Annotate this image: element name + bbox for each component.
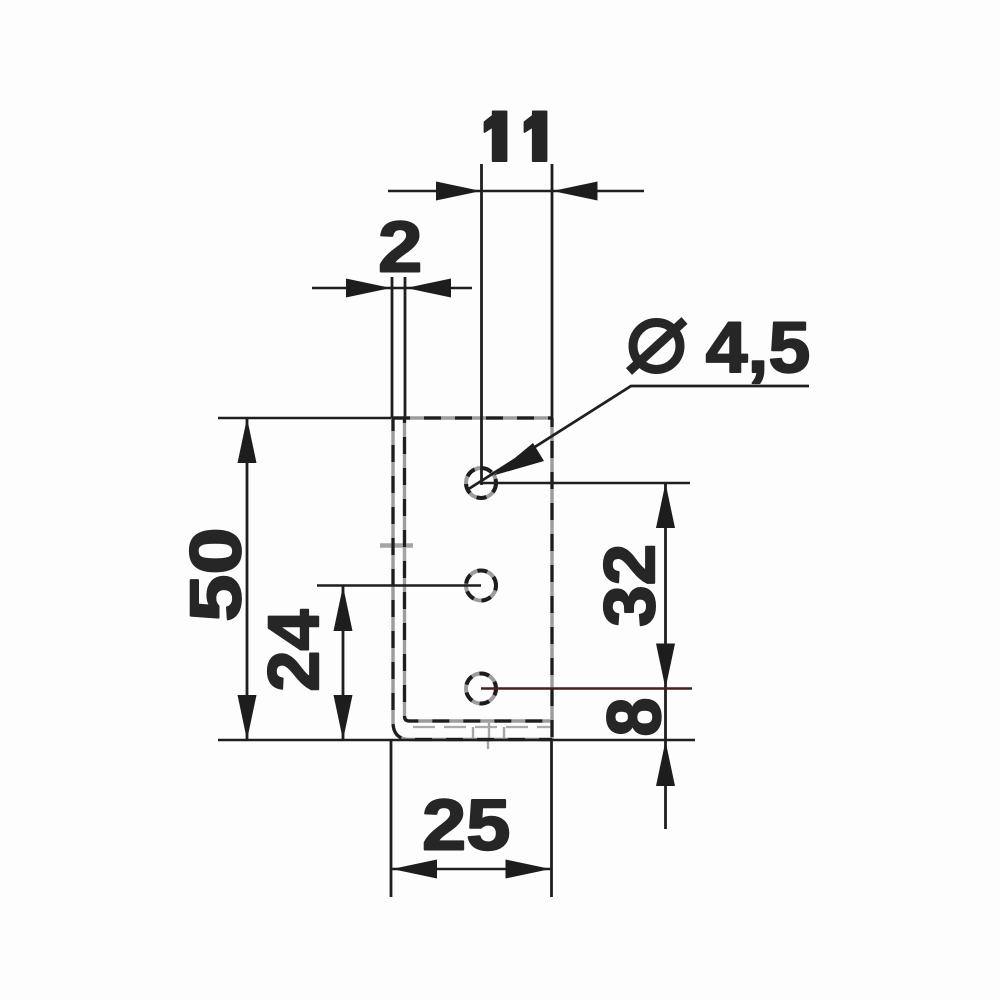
dimension 25 extension line left xyxy=(390,741,393,897)
dimension 24 arrow top xyxy=(334,586,353,631)
dimension 50 arrow bottom xyxy=(238,695,257,740)
dimension 50 arrow top xyxy=(238,418,257,463)
dimension 24 text xyxy=(268,610,318,689)
bend mark tick on left edge xyxy=(380,543,413,548)
dimension 2 extension line left xyxy=(391,277,394,418)
dimension 32 arrow bottom xyxy=(656,644,675,689)
dimension 2 extension line right xyxy=(404,277,407,418)
dimension 8 arrow bottom xyxy=(656,741,675,786)
hole H3 bottom xyxy=(466,674,496,704)
dimension 11 arrow left xyxy=(436,182,481,201)
dimension 25 extension line right xyxy=(550,741,553,897)
dimension 11 line xyxy=(388,190,644,193)
dimension 8 text xyxy=(607,700,661,735)
dimension 32 and 8 line xyxy=(664,483,667,829)
dimension 25 text xyxy=(425,799,508,850)
dimension 24 line xyxy=(342,586,345,741)
dimension 25 arrow right xyxy=(506,860,551,879)
leader diameter symbol xyxy=(629,321,685,372)
bracket inner flange gray line xyxy=(413,726,552,728)
dimension 50 top extension line xyxy=(218,417,391,420)
dimension 11 arrow right xyxy=(553,182,598,201)
leader line for diameter 4,5 xyxy=(467,386,809,490)
shared bottom extension line xyxy=(218,739,695,742)
dimension 25 arrow left xyxy=(392,860,437,879)
dimension 11 text xyxy=(485,112,547,162)
dimension 32 top extension line xyxy=(481,482,690,485)
dimension 25 line xyxy=(391,868,552,871)
dimension 2 line xyxy=(312,287,472,290)
dimension 11 extension line right xyxy=(551,164,554,418)
dimension 2 arrow left xyxy=(346,279,391,298)
dimension 8 red extension line xyxy=(481,687,692,690)
dimension 11 extension line left / centerline into hole H1 xyxy=(480,164,483,485)
flange notch ticks xyxy=(473,721,504,749)
hole H1 top xyxy=(466,468,496,498)
bracket outline black dash overlay xyxy=(393,418,552,740)
dimension 24 top extension line xyxy=(317,584,481,587)
dimension 50 text xyxy=(190,531,241,620)
dimension 24 arrow bottom xyxy=(334,695,353,740)
hole H2 middle xyxy=(466,571,496,601)
leader text 4,5 xyxy=(707,323,808,384)
bracket outline gray base xyxy=(393,418,552,740)
dimension 2 text xyxy=(381,221,419,271)
dimension 32 text xyxy=(604,547,655,625)
dimension 50 line xyxy=(246,418,249,740)
dimension 2 arrow right xyxy=(406,279,451,298)
leader arrowhead xyxy=(494,443,545,476)
dimension 32 arrow top xyxy=(656,483,675,528)
